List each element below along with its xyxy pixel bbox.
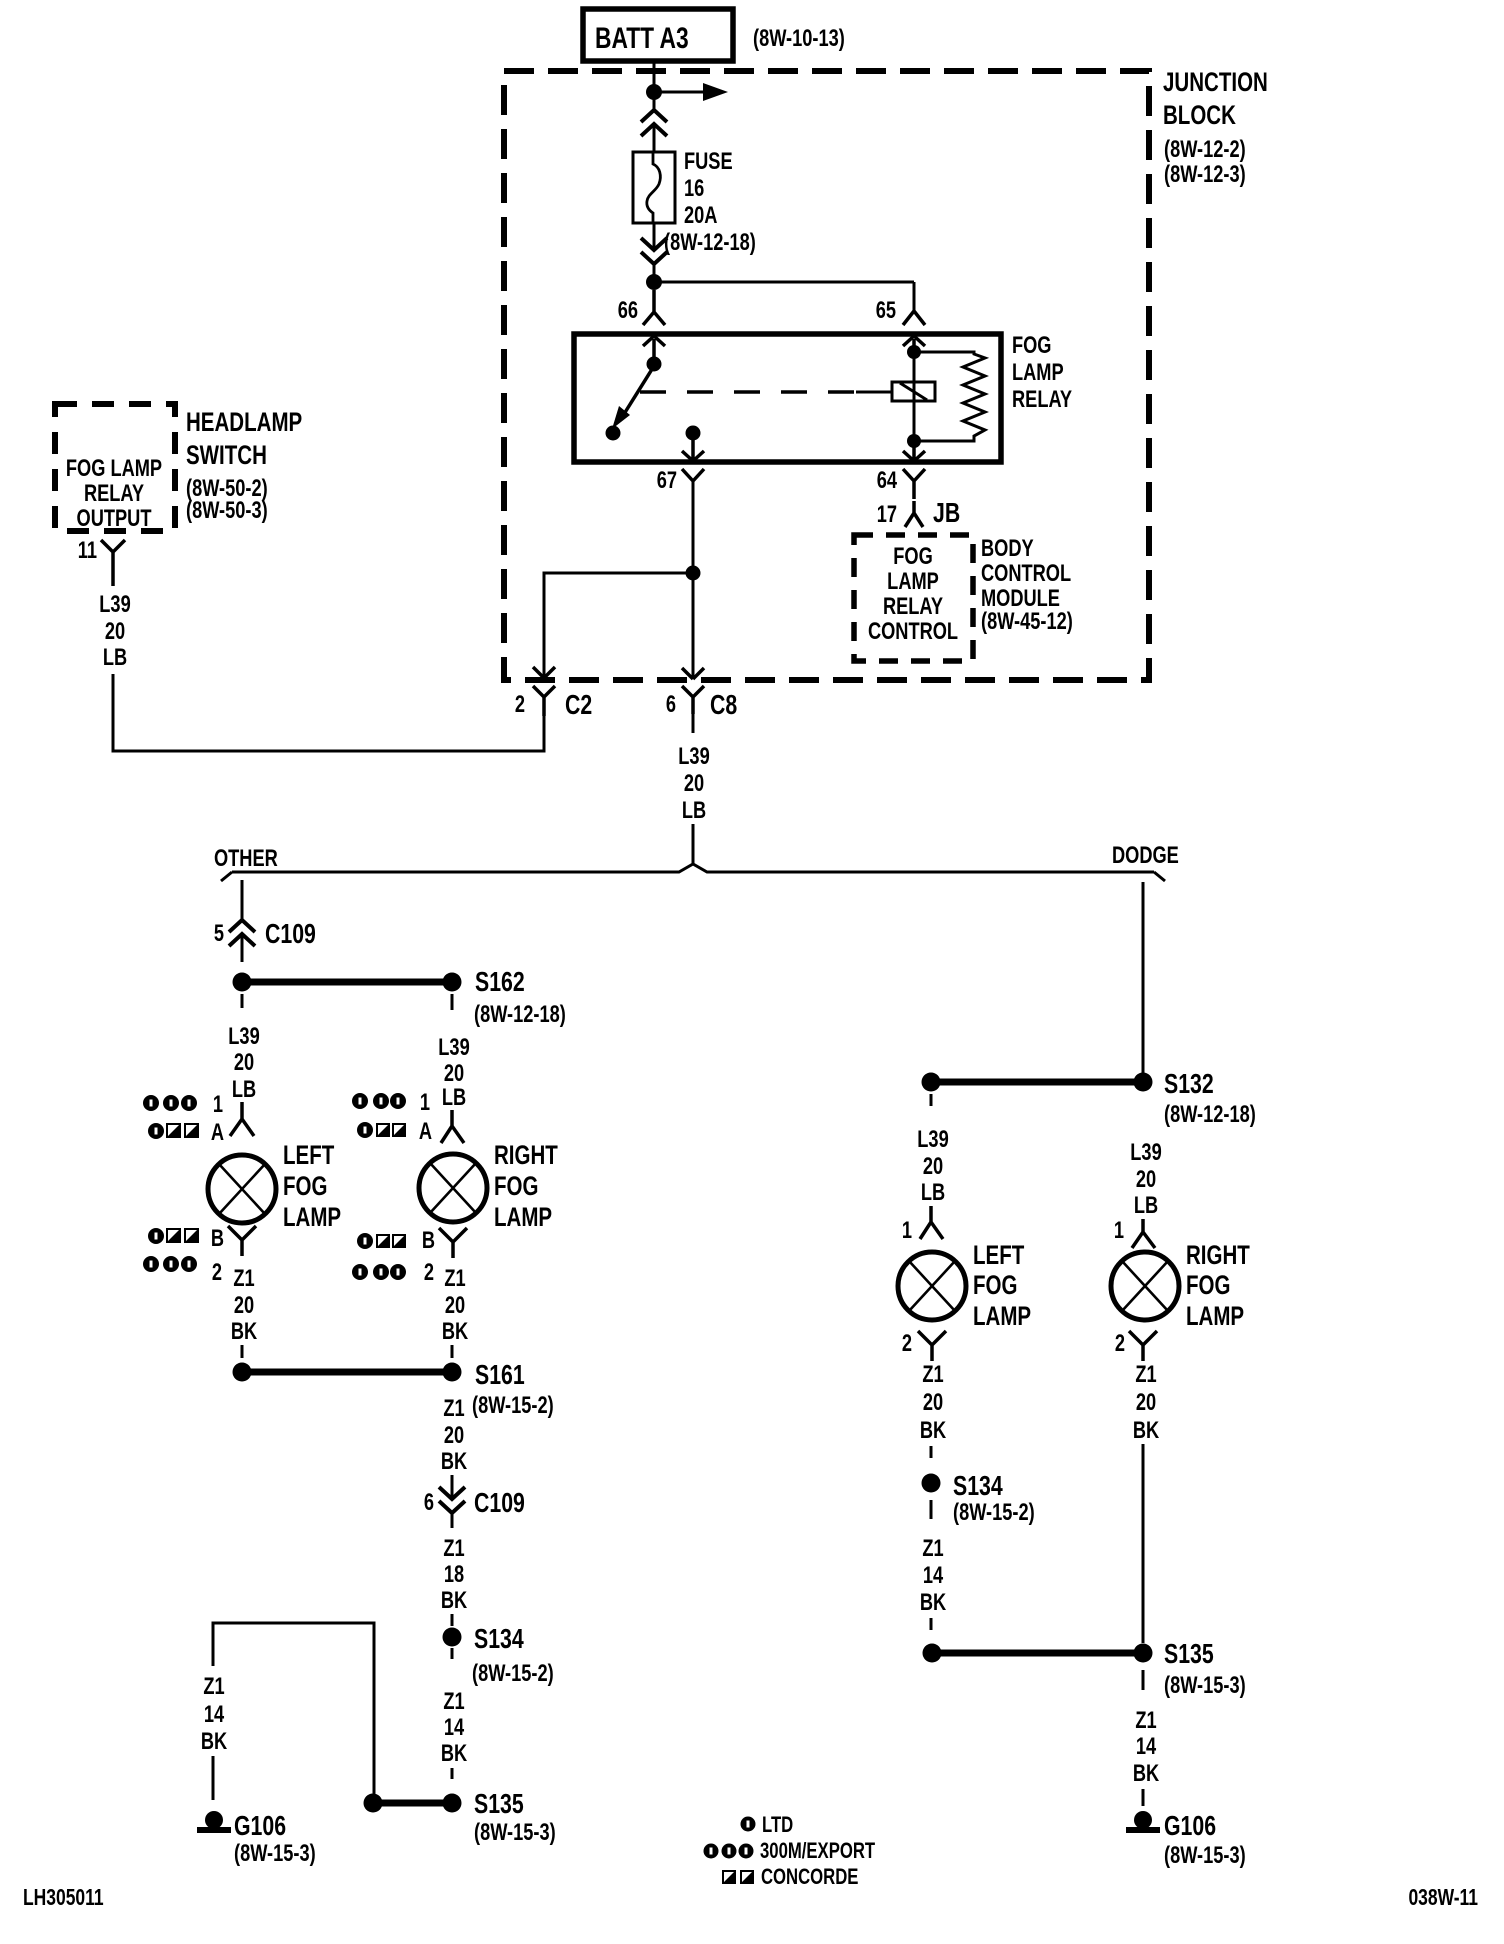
svg-text:20: 20 [445,1292,465,1319]
wire to split [692,824,695,864]
svg-text:14: 14 [1136,1733,1156,1760]
svg-text:FOG: FOG [973,1270,1017,1300]
svg-text:BK: BK [920,1417,947,1444]
relay switch pivot dot [647,357,662,372]
headlamp switch dashed box [55,404,175,531]
ground G106 dodge [1134,1811,1152,1829]
svg-text:LEFT: LEFT [283,1140,335,1170]
pin 11 connector [101,540,125,586]
C109 inline connector down [439,1487,465,1513]
relay K1 FOG LAMP RELAY box [574,334,1001,462]
svg-text:Z1: Z1 [444,1265,465,1292]
legend CONCORDE symbol [722,1870,754,1884]
svg-text:Z1: Z1 [922,1361,943,1388]
power source box BATT A3 [583,9,733,61]
wire stub to S135 dodge [930,1618,933,1630]
svg-text:(8W-12-18): (8W-12-18) [664,229,756,256]
wire stub below S134 dodge [930,1500,933,1519]
svg-text:BK: BK [441,1740,468,1767]
svg-text:S132: S132 [1164,1068,1214,1100]
splice bus S132 [931,1079,1143,1086]
svg-text:OUTPUT: OUTPUT [77,505,152,532]
svg-text:20A: 20A [684,202,717,229]
svg-text:20: 20 [1136,1166,1156,1193]
svg-text:Z1: Z1 [922,1535,943,1562]
svg-text:66: 66 [618,297,638,324]
ground G106 left [205,1811,223,1829]
splice S161 dot [443,1363,462,1382]
svg-text:20: 20 [1136,1389,1156,1416]
lamp RIGHT FOG LAMP other [419,1154,487,1222]
svg-text:(8W-12-3): (8W-12-3) [1164,161,1246,188]
C8 connector [682,686,704,714]
svg-text:BK: BK [441,1448,468,1475]
svg-text:HEADLAMP: HEADLAMP [186,407,302,437]
svg-text:LAMP: LAMP [1012,359,1064,386]
wire stub below left S132 [930,1094,933,1106]
wire stub to S161 [451,1345,454,1358]
svg-text:L39: L39 [917,1126,949,1153]
svg-text:LAMP: LAMP [1186,1301,1244,1331]
svg-text:67: 67 [657,467,677,494]
splice S134 dot left branch [443,1628,462,1647]
junction dot below BATT A3 [646,84,662,100]
svg-text:(8W-15-2): (8W-15-2) [472,1392,554,1419]
svg-text:17: 17 [877,501,897,528]
svg-text:LH305011: LH305011 [23,1886,104,1911]
variant symbols concorde row pinA right [357,1122,406,1138]
svg-text:FOG: FOG [494,1171,538,1201]
svg-text:BK: BK [441,1587,468,1614]
splice dot left [233,973,252,992]
svg-text:FOG: FOG [1012,332,1051,359]
C109 inline connector up [229,920,255,946]
svg-text:LB: LB [1134,1192,1158,1219]
svg-text:(8W-50-3): (8W-50-3) [186,497,268,524]
C2 arrow into junction block [533,667,555,678]
svg-text:2: 2 [515,691,525,718]
svg-text:6: 6 [666,691,676,718]
svg-text:LB: LB [682,797,706,824]
svg-text:RIGHT: RIGHT [1186,1240,1250,1270]
svg-text:L39: L39 [228,1023,260,1050]
junction dot feed node [646,274,662,290]
svg-text:11: 11 [78,537,97,564]
svg-text:16: 16 [684,175,704,202]
inline connector chevrons below fuse [641,238,667,264]
svg-text:S135: S135 [474,1788,524,1820]
wire dodge right to S135 [1142,1444,1145,1643]
svg-text:BK: BK [1133,1417,1160,1444]
svg-text:LB: LB [232,1076,256,1103]
junction dot relay common [686,566,701,581]
svg-text:BK: BK [442,1318,469,1345]
svg-text:Z1: Z1 [443,1688,464,1715]
svg-text:CONCORDE: CONCORDE [761,1865,858,1890]
lamp connector pin A right [441,1110,464,1143]
svg-text:14: 14 [923,1562,943,1589]
relay switch contact dot [606,426,621,441]
svg-text:20: 20 [444,1060,464,1087]
svg-text:1: 1 [1114,1217,1124,1244]
lamp connector pin B [228,1226,256,1256]
svg-text:1: 1 [902,1217,912,1244]
svg-text:LEFT: LEFT [973,1240,1025,1270]
splice bus to S135 left [373,1800,452,1807]
junction dot ground run [364,1794,383,1813]
svg-text:Z1: Z1 [443,1395,464,1422]
svg-text:20: 20 [444,1422,464,1449]
splice S132 dot [1134,1073,1153,1092]
svg-text:BATT A3: BATT A3 [595,21,689,55]
svg-text:SWITCH: SWITCH [186,440,267,470]
wire BATT A3 to fuse [653,61,656,110]
wire pin 67 to C8 [692,481,695,679]
svg-text:20: 20 [234,1049,254,1076]
svg-text:FOG: FOG [1186,1270,1230,1300]
wire to G106 left [212,1756,215,1800]
svg-text:L39: L39 [1130,1139,1162,1166]
svg-text:LAMP: LAMP [973,1301,1031,1331]
svg-text:L39: L39 [99,591,131,618]
svg-text:A: A [419,1118,432,1145]
C2 connector [533,686,555,716]
relay pin 65 internal terminal [903,336,925,352]
svg-text:2: 2 [212,1259,222,1286]
svg-text:C2: C2 [565,689,592,721]
svg-text:FUSE: FUSE [684,148,733,175]
svg-text:20: 20 [923,1389,943,1416]
svg-text:(8W-15-3): (8W-15-3) [474,1819,556,1846]
arrow to other circuits [654,91,703,94]
relay actuation dashed link [640,390,858,394]
wire S161 to C109 [451,1475,454,1498]
svg-text:LB: LB [442,1084,466,1111]
split rail [232,864,1154,872]
junction block dashed outline [504,71,1149,680]
svg-text:(8W-45-12): (8W-45-12) [981,608,1073,635]
relay coil lower node dot [907,434,921,448]
splice S162 dot [443,973,462,992]
svg-text:1: 1 [213,1091,223,1118]
lamp connector pin A [230,1102,254,1136]
svg-text:A: A [211,1119,224,1146]
svg-text:(8W-12-18): (8W-12-18) [1164,1101,1256,1128]
wire S134 branch to ground G106 [213,1623,374,1794]
wire DODGE drop [1142,882,1145,1073]
svg-text:18: 18 [444,1561,464,1588]
lamp RIGHT FOG LAMP dodge [1111,1252,1179,1320]
svg-text:(8W-10-13): (8W-10-13) [753,25,845,52]
svg-text:FOG: FOG [283,1171,327,1201]
svg-text:(8W-15-2): (8W-15-2) [472,1660,554,1687]
wire C8 down [692,714,695,733]
svg-text:S161: S161 [475,1359,525,1391]
svg-text:BODY: BODY [981,535,1034,562]
svg-text:Z1: Z1 [203,1673,224,1700]
splice S135 dot dodge [1134,1644,1153,1663]
svg-text:65: 65 [876,297,896,324]
inline connector chevrons above fuse [641,110,667,136]
lamp LEFT FOG LAMP other [208,1155,276,1223]
svg-text:2: 2 [1115,1330,1125,1357]
svg-text:JUNCTION: JUNCTION [1163,67,1268,97]
svg-text:RELAY: RELAY [883,593,943,620]
svg-text:20: 20 [684,770,704,797]
svg-text:RIGHT: RIGHT [494,1140,558,1170]
svg-text:Z1: Z1 [443,1535,464,1562]
lamp LEFT FOG LAMP dodge [898,1252,966,1320]
wire stub to S135 left [451,1768,454,1779]
splice dot left S135 dodge [923,1644,942,1663]
pin 64 connector [903,469,925,499]
svg-text:LAMP: LAMP [283,1202,341,1232]
wire coil branch [913,352,916,441]
svg-text:Z1: Z1 [233,1265,254,1292]
svg-text:C109: C109 [265,918,316,950]
svg-text:1: 1 [420,1089,430,1116]
svg-text:B: B [211,1225,224,1252]
variant symbols concorde row pinB right [357,1233,406,1249]
wire C2 to relay common [544,573,693,678]
pin 66 connector [643,290,665,325]
svg-text:CONTROL: CONTROL [981,560,1071,587]
svg-text:038W-11: 038W-11 [1408,1886,1478,1911]
svg-text:64: 64 [877,467,897,494]
variant symbols 300M row pin1 right [352,1093,406,1109]
wire stub to S134 dodge [930,1446,933,1458]
svg-text:(8W-15-3): (8W-15-3) [234,1840,316,1867]
svg-text:BK: BK [1133,1760,1160,1787]
svg-text:Z1: Z1 [1135,1361,1156,1388]
C8 arrow into junction block [682,668,704,679]
svg-text:(8W-15-2): (8W-15-2) [953,1499,1035,1526]
wire headlamp switch to C2 [113,674,544,751]
svg-text:DODGE: DODGE [1112,842,1179,869]
splice dot left S132 [922,1073,941,1092]
splice dot left S161 [233,1363,252,1382]
svg-text:L39: L39 [678,743,710,770]
svg-text:2: 2 [424,1259,434,1286]
svg-text:2: 2 [902,1330,912,1357]
body control module dashed box [854,535,973,661]
svg-text:CONTROL: CONTROL [868,618,958,645]
wire to G106 dodge [1142,1789,1145,1806]
svg-text:S162: S162 [475,966,525,998]
lamp connector pin 2 dodge right [1129,1331,1157,1361]
lamp connector pin B right [439,1228,467,1258]
svg-text:JB: JB [933,497,960,529]
relay pin 64 internal terminal [903,441,925,461]
variant symbols 300M row pin2 right [352,1264,406,1280]
svg-text:S135: S135 [1164,1638,1214,1670]
svg-text:LB: LB [103,644,127,671]
legend 300M EXPORT symbol [704,1844,754,1859]
svg-text:(8W-12-2): (8W-12-2) [1164,136,1246,163]
variant symbols concorde row pinA left [148,1123,199,1139]
relay pin 67 internal terminal [682,440,704,461]
svg-text:(8W-12-18): (8W-12-18) [474,1001,566,1028]
lamp connector pin 1 dodge right [1132,1219,1155,1248]
splice bus S162 [242,979,452,986]
svg-text:LAMP: LAMP [887,568,939,595]
svg-text:(8W-15-3): (8W-15-3) [1164,1672,1246,1699]
svg-text:BK: BK [231,1318,258,1345]
wire node to pin 65 [654,281,914,284]
svg-text:G106: G106 [1164,1810,1216,1842]
relay switch arm [624,366,654,414]
svg-text:300M/EXPORT: 300M/EXPORT [760,1839,875,1864]
lamp connector pin 2 dodge left [918,1331,946,1361]
wire stub below S162 [451,994,454,1010]
svg-text:LB: LB [921,1179,945,1206]
splice bus S161 [242,1369,452,1376]
resistor across coil [914,352,985,441]
svg-text:5: 5 [214,920,224,947]
relay coil upper node dot [907,345,921,359]
svg-text:14: 14 [204,1701,224,1728]
wire stub to S134 left [451,1614,454,1626]
svg-text:B: B [422,1227,435,1254]
variant symbols 300M row pin1 left [143,1095,197,1111]
svg-text:FOG: FOG [893,543,932,570]
svg-text:6: 6 [424,1489,434,1516]
variant symbols concorde row pinB left [148,1228,199,1244]
svg-text:RELAY: RELAY [84,480,144,507]
splice bus S135 dodge [932,1650,1143,1657]
pin 65 connector [903,311,925,325]
legend LTD symbol [741,1817,756,1832]
splice S134 dot dodge [922,1474,941,1493]
variant symbols 300M row pin2 left [143,1256,197,1272]
svg-text:20: 20 [234,1292,254,1319]
svg-text:S134: S134 [953,1470,1003,1502]
wire stub below left splice [241,994,244,1008]
svg-text:S134: S134 [474,1623,524,1655]
lamp connector pin 1 dodge left [920,1206,943,1239]
JB pin 17 connector [905,501,923,527]
svg-text:20: 20 [923,1153,943,1180]
wire OTHER drop [241,880,244,920]
pin 67 connector [682,469,704,481]
wire stub to S161 bus left [241,1345,244,1358]
svg-text:L39: L39 [438,1034,470,1061]
fuse 16 20A [633,152,675,223]
svg-text:Z1: Z1 [1135,1707,1156,1734]
wire stub below S135 dodge [1142,1670,1145,1690]
svg-text:LAMP: LAMP [494,1202,552,1232]
svg-text:20: 20 [105,618,125,645]
svg-text:OTHER: OTHER [214,845,278,872]
svg-text:(8W-15-3): (8W-15-3) [1164,1842,1246,1869]
svg-text:C8: C8 [710,689,737,721]
svg-text:14: 14 [444,1714,464,1741]
relay pin 66 internal terminal [643,336,665,358]
wire stub below S134 left [451,1648,454,1659]
wire fuse to node [653,223,656,249]
svg-text:FOG LAMP: FOG LAMP [66,455,162,482]
svg-text:LTD: LTD [762,1813,793,1838]
svg-text:BLOCK: BLOCK [1163,100,1237,130]
relay coil box [892,382,935,401]
svg-text:BK: BK [920,1589,947,1616]
relay common dot pin 67 [686,426,701,441]
splice S135 dot left branch [443,1794,462,1813]
svg-text:RELAY: RELAY [1012,386,1072,413]
svg-text:BK: BK [201,1728,228,1755]
svg-text:G106: G106 [234,1810,286,1842]
svg-text:C109: C109 [474,1487,525,1519]
